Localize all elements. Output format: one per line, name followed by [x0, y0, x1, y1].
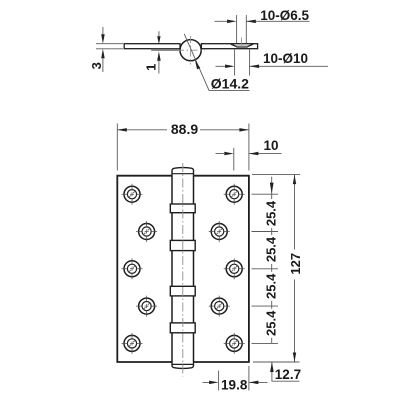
- svg-text:Ø14.2: Ø14.2: [211, 76, 249, 92]
- svg-text:10-Ø6.5: 10-Ø6.5: [260, 8, 309, 23]
- svg-text:1: 1: [143, 64, 158, 71]
- hinge leaf A (side/top view plate): [124, 44, 180, 49]
- 12.7 dimension leader and arrow: [272, 362, 300, 381]
- knuckle joint collar 2: [170, 240, 195, 250]
- dimension 10 lines and arrows: [216, 153, 282, 155]
- svg-text:10: 10: [263, 138, 278, 153]
- svg-text:25.4: 25.4: [264, 273, 279, 299]
- screw hole 5: [122, 258, 143, 279]
- knuckle joint collar 4: [170, 323, 195, 333]
- screw hole 3: [136, 221, 157, 242]
- dimension 10 extension line: [233, 148, 235, 171]
- svg-text:3: 3: [89, 62, 104, 69]
- dimension 10-Ø6.5 extension lines: [237, 15, 247, 43]
- svg-text:19.8: 19.8: [221, 377, 248, 392]
- hinge leaf B hidden edge (1mm offset bar): [151, 49, 181, 51]
- dimension 1 arrows: [158, 31, 160, 36]
- leader line for Ø14.2 through circle: [184, 34, 249, 91]
- dimension text 25.4 segment 2: [266, 235, 280, 264]
- barrel centerline: [182, 163, 184, 377]
- screw hole 10: [224, 333, 245, 354]
- screw hole 7: [136, 296, 157, 317]
- right side hole row extension lines: [252, 194, 279, 343]
- dimension text 25.4 segment 1: [266, 199, 280, 228]
- 127 dimension line and arrows: [294, 175, 296, 362]
- knuckle joint collar 1: [170, 204, 195, 213]
- dimension 88.9 line and arrows: [117, 129, 249, 131]
- svg-text:25.4: 25.4: [264, 200, 279, 226]
- svg-text:88.9: 88.9: [171, 121, 198, 137]
- dimension 10-Ø10 lines and arrows: [216, 65, 329, 67]
- knuckle joint collar 3: [170, 286, 195, 296]
- barrel tube vertical lines: [172, 176, 194, 362]
- screw hole 2: [224, 184, 245, 205]
- dimension 88.9 extension lines: [117, 124, 249, 171]
- hinge leaf B (side/top view plate right): [201, 44, 257, 49]
- screw hole 8: [209, 296, 230, 317]
- dimension 19.8 extension lines: [219, 366, 249, 391]
- hinge front view outline: [117, 176, 249, 362]
- svg-text:12.7: 12.7: [275, 367, 301, 382]
- screw hole 4: [209, 221, 230, 242]
- svg-text:127: 127: [288, 253, 303, 275]
- countersunk hole cross-section: [231, 44, 253, 46]
- dimension 10-Ø6.5 lines and arrows: [215, 20, 310, 22]
- knuckle circle centerlines: [177, 49, 205, 51]
- dimension text 25.4 segment 4: [266, 309, 280, 338]
- barrel pin top cap: [172, 168, 194, 176]
- svg-text:10-Ø10: 10-Ø10: [263, 51, 308, 66]
- 127 dimension extension lines: [252, 175, 300, 362]
- dimension text 25.4 segment 3: [266, 272, 280, 301]
- svg-text:25.4: 25.4: [264, 310, 279, 336]
- dimension text 88.9: [167, 122, 200, 137]
- screw hole 1: [122, 184, 143, 205]
- screw hole 9: [122, 333, 143, 354]
- dimension text 127: [288, 250, 303, 280]
- dimension 19.8 lines and arrows: [203, 381, 268, 383]
- svg-text:25.4: 25.4: [264, 236, 279, 262]
- 25.4 chain dimension line: [271, 177, 273, 344]
- dimension 3 arrows: [102, 27, 104, 36]
- barrel pin bottom cap: [172, 362, 194, 368]
- dimension 10-Ø10 extension lines: [235, 50, 250, 76]
- dimension 3 (leaf thickness) extension lines: [96, 44, 123, 49]
- knuckle barrel circle (top view): [180, 40, 201, 61]
- screw hole 6: [224, 258, 245, 279]
